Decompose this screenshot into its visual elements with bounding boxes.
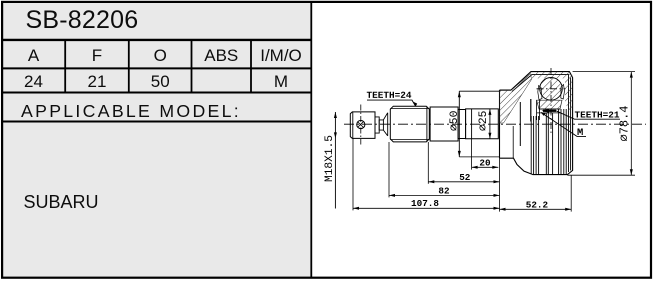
table right border — [310, 2, 312, 277]
arrows dim 52.2 — [500, 208, 506, 211]
M leader arrowhead — [541, 112, 546, 116]
extension line 82 — [388, 142, 390, 197]
value cell 24 — [2, 72, 65, 92]
inner race left edges — [537, 100, 540, 120]
value cell 21 — [65, 72, 129, 92]
svg-text:M: M — [577, 127, 583, 139]
spline section TEETH=24 — [390, 106, 429, 142]
teeth24 leader arrowhead — [413, 102, 417, 107]
spline right double edge — [426, 106, 428, 141]
neck groove — [379, 120, 383, 130]
hatch right block — [565, 78, 572, 112]
applicable model label — [21, 101, 241, 122]
dia78.4 extension bottom — [567, 174, 635, 176]
cotter pin hole — [357, 120, 365, 128]
column line ABS|IMO — [250, 40, 252, 93]
arrows dim 20 — [472, 166, 478, 169]
extension line 52.2 right — [570, 175, 572, 212]
cage left edge — [530, 99, 532, 122]
svg-text:107.8: 107.8 — [411, 198, 439, 209]
M18X1.5 dimension line — [334, 112, 336, 209]
dimension arrowheads — [334, 72, 633, 211]
part number title SB-82206 — [26, 6, 139, 35]
dim line 107.8 — [353, 207, 500, 209]
dim line 52 — [428, 181, 499, 183]
bell right face double line — [570, 78, 572, 171]
value cell M — [251, 72, 311, 92]
header cell ABS — [192, 46, 252, 66]
big cylinder section — [430, 107, 458, 141]
teeth21 leader black arrow — [542, 109, 550, 113]
spline minor diameter lines — [390, 109, 429, 140]
cotter pin hole hatch — [358, 122, 364, 128]
svg-text:TEETH=21: TEETH=21 — [575, 110, 620, 121]
M leader line — [541, 112, 586, 136]
column line F|O — [128, 40, 130, 93]
table line under header row — [2, 67, 312, 69]
boot seat divider — [471, 109, 473, 139]
svg-text:∅25: ∅25 — [478, 110, 490, 131]
column line A|F — [64, 40, 66, 93]
bell outer race profile — [500, 72, 573, 175]
header cell F — [65, 46, 129, 66]
arrows dim 107.8 — [353, 207, 359, 210]
arrows dim 52 — [428, 180, 434, 183]
svg-text:∅50: ∅50 — [449, 110, 461, 131]
svg-text:M18X1.5: M18X1.5 — [324, 135, 336, 182]
table line under title — [2, 39, 312, 41]
dia50 dimension line — [458, 91, 460, 157]
header cell I/M/O — [251, 46, 311, 66]
column line O|ABS — [191, 40, 193, 93]
arrows dim 82 — [389, 194, 395, 197]
bell inner wall — [568, 75, 570, 172]
extension line 107.8 left — [352, 138, 354, 210]
svg-text:∅78.4: ∅78.4 — [617, 105, 631, 141]
teeth24 leader line — [367, 100, 416, 106]
header cell A — [2, 46, 65, 66]
hatch wedge left wall — [500, 74, 532, 124]
inner race hatched band — [537, 100, 562, 109]
thread M18 body — [350, 112, 375, 138]
dia25 dimension line — [489, 109, 491, 139]
dim line 20 — [472, 166, 499, 168]
svg-text:52: 52 — [459, 172, 471, 183]
svg-text:TEETH=24: TEETH=24 — [366, 90, 411, 101]
svg-text:20: 20 — [479, 158, 491, 169]
mouth lip inner edge lower — [512, 126, 514, 158]
washer collar — [375, 117, 379, 133]
value cell 50 — [129, 72, 192, 92]
arrows dia78.4 — [630, 72, 633, 78]
extension line 52 — [427, 142, 429, 184]
cotter hole centerline — [360, 105, 362, 145]
arrows dia50 — [458, 91, 461, 97]
boot seat section — [466, 109, 499, 139]
hatch top band — [532, 72, 572, 79]
dim line 52.2 — [500, 208, 572, 210]
teeth21 leader line — [543, 110, 556, 112]
inner race left edge — [519, 102, 521, 146]
ball horizontal centerline — [537, 88, 566, 90]
gray table background — [2, 2, 312, 277]
ball — [540, 78, 563, 101]
dia78.4 dimension line — [630, 72, 632, 176]
bell face extension down — [499, 158, 501, 211]
shaft groove — [458, 110, 466, 139]
cone step — [383, 113, 387, 136]
arrows dia25 — [488, 109, 491, 115]
cage sliver right — [561, 85, 565, 100]
inner race lower lines — [537, 109, 562, 113]
main shaft centerline — [344, 123, 646, 125]
cage sliver left — [538, 86, 542, 100]
boot groove ribs — [531, 109, 566, 174]
extension line 20 — [471, 139, 473, 170]
bell mouth projection lines — [459, 91, 499, 157]
svg-text:52.2: 52.2 — [526, 199, 549, 210]
drawing text labels — [324, 90, 631, 210]
header cell O — [129, 46, 192, 66]
table line under value row — [2, 92, 312, 94]
make name SUBARU — [24, 192, 99, 213]
table grid lines — [2, 2, 312, 277]
bell chamfer double line top — [512, 75, 569, 92]
ball vertical centerline — [550, 68, 552, 133]
dia78.4 extension top — [573, 71, 635, 73]
dim line 82 — [389, 194, 500, 196]
arrows M18 — [334, 112, 337, 118]
table line under applicable model row — [2, 121, 312, 123]
svg-text:82: 82 — [438, 185, 450, 196]
thread end line — [352, 112, 354, 138]
